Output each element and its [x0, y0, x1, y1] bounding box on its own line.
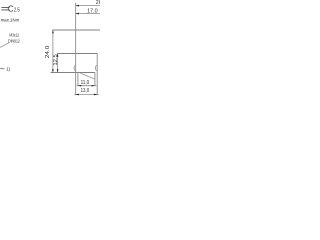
arrows 13,0: [76, 94, 79, 96]
leader line to DIN912: [0, 43, 9, 48]
right tenon inner edge: [94, 73, 96, 86]
dim line 24.0: [52, 30, 54, 73]
part right edge: [96, 54, 98, 96]
dim line 26: [76, 5, 100, 7]
arrows 11,0: [78, 85, 81, 87]
arrow 17,0: [76, 13, 79, 15]
part bottom edge: [51, 72, 95, 74]
left tenon inner edge: [77, 73, 79, 86]
svg-text:26,0: 26,0: [96, 0, 100, 6]
arrows 24.0: [52, 30, 54, 33]
left loop clip: [74, 66, 76, 71]
footnote squiggle: [0, 67, 4, 69]
wrench icon: [1, 6, 13, 11]
part top edge: [52, 29, 100, 31]
svg-text:24.0: 24.0: [45, 46, 51, 59]
right loop clip: [95, 65, 97, 70]
part left edge / extension line: [75, 3, 77, 96]
svg-text:DIN912: DIN912: [8, 39, 20, 45]
arrow 26: [76, 5, 79, 7]
svg-text:2.5: 2.5: [14, 7, 20, 13]
svg-text:13,0: 13,0: [81, 88, 90, 94]
svg-text:17,0: 17,0: [87, 8, 98, 14]
dim line 17,0: [76, 13, 100, 15]
svg-text:M3x12: M3x12: [9, 33, 19, 39]
svg-text:11,0: 11,0: [81, 80, 90, 86]
dim line 12.5: [57, 54, 59, 73]
svg-text:1): 1): [6, 66, 10, 71]
arrows 12.5: [57, 54, 59, 57]
svg-text:max.1Nm: max.1Nm: [1, 18, 20, 24]
dim line 11,0: [77, 85, 97, 87]
diagonal slot line: [80, 73, 95, 79]
part step edge: [57, 53, 97, 55]
svg-text:12.5: 12.5: [53, 54, 59, 65]
dim line 13,0: [74, 94, 98, 96]
